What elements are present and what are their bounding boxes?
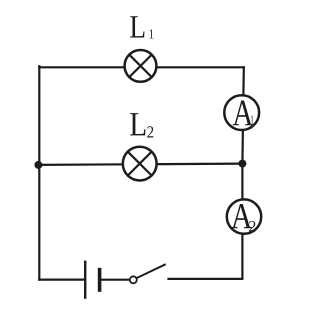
ammeter A2: [227, 199, 261, 233]
ammeter A1: [224, 95, 259, 130]
switch blade: [137, 265, 165, 279]
wire right rail: [242, 67, 243, 279]
label L1: [130, 16, 153, 38]
battery short plate: [98, 270, 102, 290]
wire bottom left segment: [39, 279, 85, 281]
node junction right: [238, 160, 246, 168]
battery long plate: [84, 262, 86, 298]
wire left rail: [38, 66, 40, 279]
label A1 (inside ammeter A1): [233, 101, 254, 126]
wire middle branch: [38, 164, 242, 165]
lamp L2: [123, 147, 157, 181]
node junction left: [34, 161, 42, 169]
wire battery to switch: [101, 279, 130, 281]
switch pivot: [130, 276, 137, 283]
wire top rail: [39, 66, 244, 68]
label A2 (inside ammeter A2): [231, 204, 255, 232]
label L2: [130, 113, 153, 137]
wire bottom right segment: [169, 278, 243, 280]
lamp L1: [125, 50, 157, 82]
